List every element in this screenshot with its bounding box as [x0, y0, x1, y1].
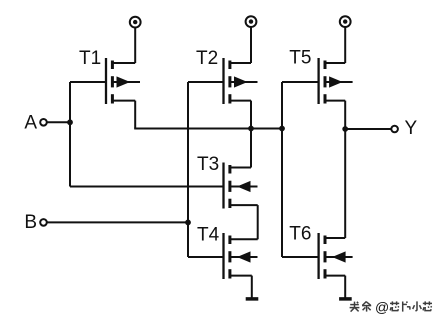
svg-text:A: A: [24, 113, 37, 134]
V2 supply (VDD) symbol: [246, 16, 257, 27]
transistor T4 (NMOS): [224, 233, 258, 279]
wire A to T1 gate: [70, 81, 106, 83]
wire output node to terminal Y: [345, 128, 391, 130]
wire T5 drain to VDD rail: [325, 27, 345, 63]
wire T3 drain up to NAND output node: [230, 129, 251, 168]
wire node A vertical: [69, 82, 71, 187]
wire T2 source down to NAND output node: [230, 101, 251, 129]
svg-text:T1: T1: [79, 48, 101, 69]
wire NAND node to T6 gate: [282, 256, 319, 258]
svg-text:Y: Y: [405, 118, 418, 139]
wire input A from terminal to junction: [47, 121, 70, 123]
junction output Y node: [342, 126, 348, 132]
wire node B vertical: [187, 82, 189, 257]
transistor T6 (NMOS): [319, 233, 353, 279]
wire A to T3 gate: [70, 186, 224, 188]
junction NAND node at inverter input: [279, 126, 285, 132]
transistor T3 (NMOS): [224, 163, 258, 209]
wire T4 source to ground: [230, 276, 252, 298]
svg-text:T4: T4: [197, 225, 220, 246]
transistor T5 (PMOS): [319, 58, 353, 104]
svg-text:T2: T2: [196, 48, 218, 69]
junction node A: [67, 119, 73, 125]
wire B to T4 gate: [188, 256, 224, 258]
V3 supply (VDD) symbol: [340, 16, 351, 27]
wire NAND node to T5 gate: [282, 81, 319, 83]
wire T1 drain to VDD rail: [112, 28, 135, 64]
ground under T4: [246, 297, 259, 301]
wire T1 source down to NAND output node: [112, 101, 135, 129]
transistor T2 (PMOS): [224, 58, 258, 104]
transistor T1 (PMOS): [106, 58, 140, 104]
svg-text:B: B: [24, 212, 37, 233]
junction NAND node at T2/T3: [248, 126, 254, 132]
svg-text:T3: T3: [197, 154, 219, 175]
svg-text:@: @: [375, 299, 389, 315]
wire T3 source to T4 drain: [230, 205, 258, 239]
wire T5 source down to output Y node: [325, 101, 345, 129]
V1 supply (VDD) symbol: [130, 17, 141, 28]
wire NAND output node row: [134, 128, 282, 130]
svg-text:T5: T5: [289, 48, 311, 69]
wire NAND node vertical to inverter gates: [281, 82, 283, 257]
wire T6 source to ground: [325, 276, 345, 298]
junction node B: [185, 220, 191, 226]
svg-text:T6: T6: [289, 224, 311, 245]
wire B to T2 gate: [188, 81, 224, 83]
terminal input B: [40, 219, 47, 226]
terminal output Y: [391, 126, 398, 133]
terminal input A: [40, 119, 47, 126]
watermark "头条 @芯片小芯": [350, 299, 432, 315]
wire T2 drain to VDD rail: [230, 27, 251, 63]
wire T6 drain up to output Y node: [325, 129, 345, 238]
ground under T6: [339, 297, 352, 301]
wire input B from terminal to junction: [47, 221, 188, 223]
